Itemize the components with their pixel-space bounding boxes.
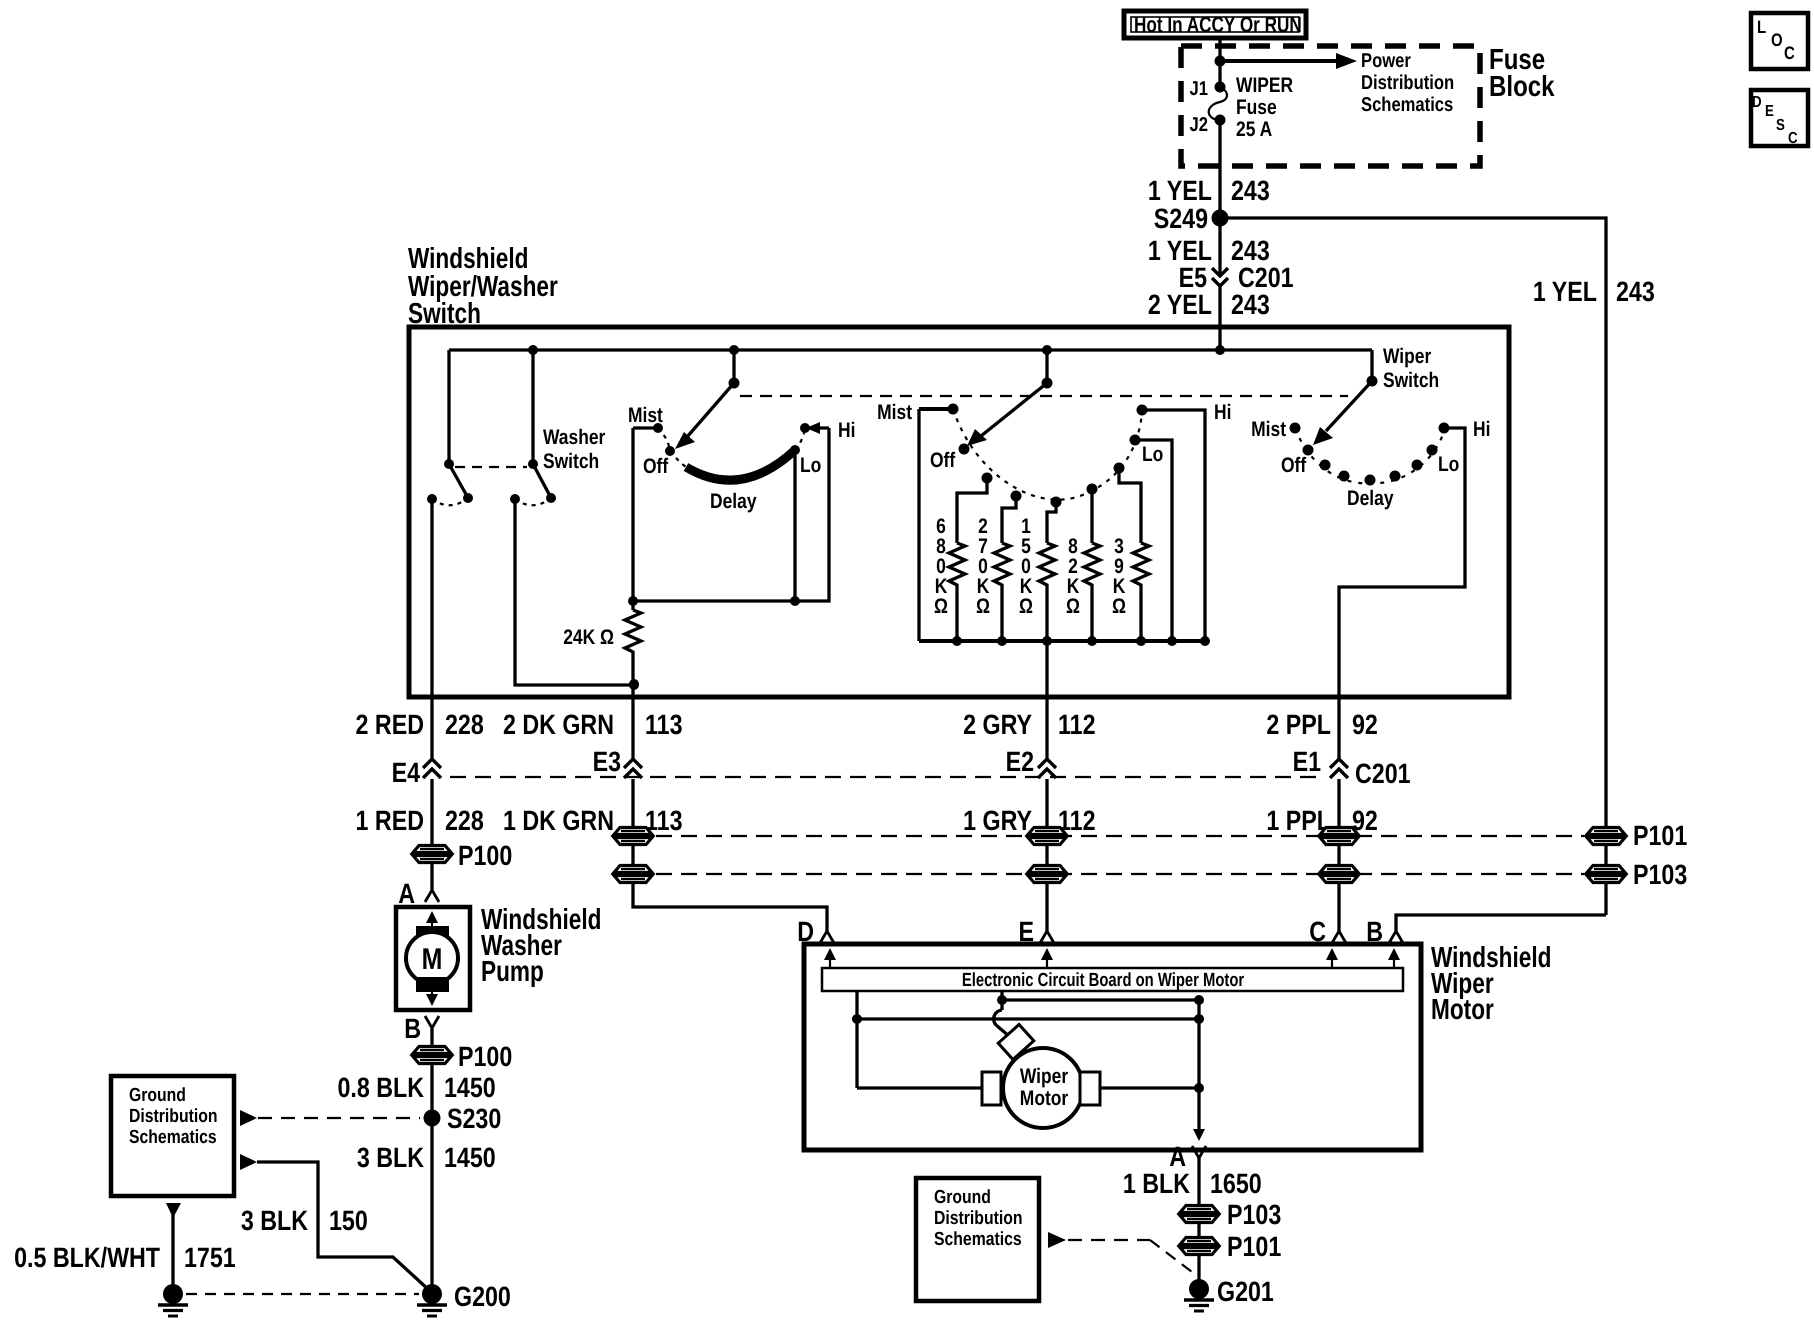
svg-text:E: E bbox=[1765, 103, 1774, 120]
svg-text:1 GRY: 1 GRY bbox=[963, 805, 1032, 836]
power source label: Hot In ACCY Or RUN bbox=[1124, 11, 1306, 38]
svg-text:1 YEL: 1 YEL bbox=[1533, 276, 1597, 307]
board arrow to terminal C bbox=[1326, 948, 1338, 968]
bank3 Off contact bbox=[1281, 445, 1314, 478]
electronic circuit board on wiper motor bbox=[822, 968, 1403, 991]
svg-text:1 BLK: 1 BLK bbox=[1123, 1168, 1190, 1199]
wire: internal ground leg with arrow to A bbox=[1193, 1000, 1205, 1141]
wire: internal supply bus bbox=[449, 345, 1372, 355]
wire: 2 DK GRN 113 to C201 pin E3 bbox=[503, 697, 683, 761]
connector P103 on motor ground wire bbox=[1180, 1199, 1281, 1230]
windshield washer pump motor M bbox=[396, 904, 601, 1010]
board arrow to terminal E bbox=[1041, 948, 1053, 968]
connector P103 on GRY wire bbox=[1028, 866, 1066, 883]
connector C201 pin E1 bbox=[1293, 746, 1411, 789]
svg-text:P103: P103 bbox=[1633, 859, 1687, 890]
connector C201 pin E3 bbox=[593, 746, 642, 778]
wire: 1 YEL 243 from S249 to connector C201 pin E5 bbox=[1148, 218, 1270, 276]
wire: right brush to ground leg bbox=[1100, 1083, 1204, 1093]
svg-text:Mist: Mist bbox=[1251, 418, 1286, 441]
svg-text:Washer: Washer bbox=[543, 426, 605, 449]
wire: 1 PPL 92 from E1 through P101/P103 to terminal C bbox=[1266, 779, 1377, 931]
svg-text:O: O bbox=[1771, 30, 1783, 50]
wire: 1 YEL 243 branch right from S249 to right column bbox=[1220, 218, 1655, 915]
wiper motor armature bbox=[982, 1024, 1100, 1128]
svg-text:Hi: Hi bbox=[1473, 418, 1490, 441]
connector P100 (washer pump side A) bbox=[413, 840, 512, 871]
wire: bank2 output to box exit (2 GRY) bbox=[1045, 641, 1048, 697]
svg-text:Ω: Ω bbox=[1019, 595, 1033, 618]
svg-text:Mist: Mist bbox=[877, 401, 912, 424]
wiper switch bank 2 arm bbox=[967, 350, 1053, 446]
wire: 2 PPL 92 to C201 pin E1 bbox=[1266, 697, 1377, 761]
svg-text:Ω: Ω bbox=[1066, 595, 1080, 618]
connector P101 on GRY wire bbox=[1028, 828, 1066, 845]
dashed reference from ground box to S230 bbox=[240, 1110, 420, 1126]
svg-text:Ground: Ground bbox=[934, 1187, 991, 1208]
connector C201 pin E2 bbox=[1006, 746, 1056, 778]
svg-text:1 DK GRN: 1 DK GRN bbox=[503, 805, 614, 836]
ground (left) bbox=[158, 1284, 188, 1316]
wire: 3 BLK 1450 from S230 to G200 bbox=[357, 1118, 496, 1285]
svg-text:Lo: Lo bbox=[1142, 443, 1163, 466]
svg-text:B: B bbox=[404, 1013, 421, 1044]
svg-text:2 PPL: 2 PPL bbox=[1266, 709, 1331, 740]
ground G201 bbox=[1184, 1276, 1274, 1311]
svg-text:Ω: Ω bbox=[934, 595, 948, 618]
bank2 bottom bus bbox=[919, 639, 1205, 643]
svg-text:Lo: Lo bbox=[800, 454, 821, 477]
wire: left brush to feed bbox=[857, 1086, 982, 1089]
connector C201 pin E4 bbox=[392, 757, 441, 788]
connector P101 on YEL wire with label bbox=[1587, 820, 1687, 851]
svg-text:M: M bbox=[422, 943, 443, 976]
wire: 1 DK GRN 113 from E3 to P101 connector bbox=[503, 779, 683, 836]
svg-text:P101: P101 bbox=[1633, 820, 1687, 851]
washer switch pole 1 bbox=[427, 350, 473, 505]
svg-text:C: C bbox=[1788, 130, 1798, 147]
svg-text:Hot In ACCY Or RUN: Hot In ACCY Or RUN bbox=[1134, 12, 1302, 37]
wire: 1 GRY 112 from E2 through P101/P103 to terminal E bbox=[963, 779, 1095, 931]
svg-text:P100: P100 bbox=[458, 840, 512, 871]
bank2 contact dots bbox=[982, 463, 1125, 508]
bank2 Off contact bbox=[930, 444, 970, 473]
resistor 680K ohm bbox=[934, 478, 987, 646]
wiper motor terminal A bbox=[1169, 1141, 1206, 1172]
svg-text:C201: C201 bbox=[1355, 758, 1411, 789]
svg-text:1650: 1650 bbox=[1210, 1168, 1262, 1199]
svg-text:A: A bbox=[398, 878, 415, 909]
resistor 150K ohm bbox=[1019, 502, 1056, 646]
svg-text:Motor: Motor bbox=[1020, 1087, 1068, 1110]
splice S249 bbox=[1154, 203, 1229, 234]
fuse WIPER 25 A with terminals J1 J2 bbox=[1190, 74, 1294, 141]
svg-text:0.5 BLK/WHT: 0.5 BLK/WHT bbox=[14, 1242, 160, 1273]
ground distribution schematics box (lower) bbox=[916, 1178, 1039, 1301]
bank1 travel arc dashed bbox=[658, 428, 805, 467]
bank3 Mist contact bbox=[1251, 418, 1300, 441]
connector P100 (harness side B) bbox=[413, 1041, 512, 1072]
wiper motor terminal C bbox=[1309, 916, 1346, 947]
wire: board to brush feed (left internal) bbox=[852, 991, 862, 1088]
svg-text:2 DK GRN: 2 DK GRN bbox=[503, 709, 614, 740]
svg-text:E3: E3 bbox=[593, 746, 621, 777]
bank1 Off contact bbox=[643, 446, 675, 478]
wiper switch bank 1 arm bbox=[675, 350, 740, 449]
svg-text:Electronic Circuit Board on Wi: Electronic Circuit Board on Wiper Motor bbox=[962, 970, 1245, 991]
connector P101 row dashed line bbox=[656, 835, 1584, 837]
wire between P103 and P101 bbox=[1197, 1224, 1200, 1236]
connector P103 on PPL wire bbox=[1320, 866, 1358, 883]
svg-text:243: 243 bbox=[1616, 276, 1655, 307]
svg-text:Motor: Motor bbox=[1431, 994, 1494, 1026]
svg-text:WIPER: WIPER bbox=[1236, 74, 1293, 97]
bank3 travel arc dashed with delay positions bbox=[1295, 428, 1444, 510]
svg-text:G200: G200 bbox=[454, 1281, 511, 1312]
wire: feed from Hot box into fuse block bbox=[1218, 38, 1221, 86]
svg-text:P103: P103 bbox=[1227, 1199, 1281, 1230]
svg-text:Switch: Switch bbox=[408, 298, 481, 330]
svg-text:E2: E2 bbox=[1006, 746, 1034, 777]
svg-text:P101: P101 bbox=[1227, 1231, 1281, 1262]
windshield wiper/washer switch assembly box bbox=[408, 243, 1509, 697]
svg-text:Switch: Switch bbox=[543, 450, 599, 473]
svg-text:Wiper: Wiper bbox=[1383, 345, 1431, 368]
svg-text:243: 243 bbox=[1231, 289, 1270, 320]
LOC tab bbox=[1751, 13, 1808, 69]
svg-text:Off: Off bbox=[1281, 454, 1307, 477]
svg-text:Off: Off bbox=[930, 449, 956, 472]
mechanical link washer poles (dashed) bbox=[455, 466, 527, 468]
bank2 Mist contact and leg bbox=[877, 401, 958, 641]
wire: 0.5 BLK/WHT 1751 from ground box down bbox=[14, 1203, 236, 1285]
svg-text:Power: Power bbox=[1361, 50, 1411, 72]
svg-text:92: 92 bbox=[1352, 709, 1378, 740]
connector C201 dashed line bbox=[450, 776, 1318, 778]
bank2 travel arc dashed bbox=[953, 409, 1142, 500]
svg-text:2 YEL: 2 YEL bbox=[1148, 289, 1212, 320]
svg-text:2 RED: 2 RED bbox=[356, 709, 424, 740]
svg-text:Hi: Hi bbox=[1214, 401, 1231, 424]
ground distribution schematics box (left) bbox=[111, 1076, 234, 1196]
svg-text:E1: E1 bbox=[1293, 746, 1321, 777]
svg-text:S230: S230 bbox=[447, 1103, 501, 1134]
svg-text:Switch: Switch bbox=[1383, 369, 1439, 392]
svg-text:Distribution: Distribution bbox=[129, 1106, 217, 1127]
bank2 Hi contact and wire bbox=[1137, 401, 1232, 641]
svg-text:L: L bbox=[1757, 17, 1766, 37]
svg-text:Lo: Lo bbox=[1438, 453, 1459, 476]
svg-text:Fuse: Fuse bbox=[1236, 96, 1277, 119]
resistor 82K ohm bbox=[1066, 489, 1100, 646]
windshield wiper motor box bbox=[804, 942, 1551, 1150]
svg-text:S: S bbox=[1776, 117, 1785, 134]
svg-text:J2: J2 bbox=[1190, 114, 1208, 136]
svg-text:1 YEL: 1 YEL bbox=[1148, 175, 1212, 206]
svg-text:Mist: Mist bbox=[628, 404, 663, 427]
dashed link between grounds bbox=[186, 1293, 419, 1295]
svg-text:E4: E4 bbox=[392, 757, 421, 788]
svg-text:C: C bbox=[1784, 43, 1795, 63]
resistor 24K ohm bbox=[563, 601, 641, 657]
wire: P101 to G201 bbox=[1197, 1256, 1200, 1284]
wire: 2 RED 228 from washer switch to C201 pin E4 bbox=[356, 499, 484, 761]
connector C201 pin E5 bbox=[1179, 262, 1294, 293]
svg-text:Pump: Pump bbox=[481, 956, 544, 988]
wiper motor terminal E bbox=[1018, 916, 1054, 947]
wire: 2 YEL 243 from C201 to switch assembly bbox=[1148, 286, 1270, 350]
svg-text:1450: 1450 bbox=[444, 1072, 496, 1103]
wire: DK GRN to wiper motor terminal D bbox=[633, 846, 834, 947]
board arrow to terminal B bbox=[1388, 948, 1400, 968]
svg-text:Delay: Delay bbox=[1347, 487, 1394, 510]
wire: P100 to washer pump terminal A bbox=[398, 864, 439, 909]
svg-text:243: 243 bbox=[1231, 175, 1270, 206]
svg-text:Ground: Ground bbox=[129, 1085, 186, 1106]
svg-text:1 RED: 1 RED bbox=[356, 805, 424, 836]
bank3 Lo contact bbox=[1427, 445, 1460, 477]
svg-text:0.8 BLK: 0.8 BLK bbox=[337, 1072, 424, 1103]
svg-text:S249: S249 bbox=[1154, 203, 1208, 234]
bank1 Lo contact and wire bbox=[790, 445, 821, 606]
svg-text:Schematics: Schematics bbox=[934, 1229, 1022, 1250]
connector P103 row dashed line bbox=[656, 873, 1584, 875]
dashed reference from lower ground box to motor ground wire bbox=[1048, 1232, 1192, 1272]
svg-text:Ω: Ω bbox=[976, 595, 990, 618]
svg-text:150: 150 bbox=[329, 1205, 368, 1236]
svg-text:228: 228 bbox=[445, 805, 484, 836]
svg-text:Delay: Delay bbox=[710, 490, 757, 513]
svg-text:J1: J1 bbox=[1190, 78, 1208, 100]
svg-text:3 BLK: 3 BLK bbox=[241, 1205, 308, 1236]
svg-text:G201: G201 bbox=[1217, 1276, 1274, 1307]
svg-text:Wiper: Wiper bbox=[1020, 1065, 1068, 1088]
bank2 Lo contact and wire bbox=[1130, 435, 1178, 647]
wire: internal bus y1019 bbox=[857, 1014, 1204, 1024]
mechanical link dashed line across banks bbox=[740, 395, 1348, 397]
svg-text:Schematics: Schematics bbox=[129, 1127, 217, 1148]
DESC tab bbox=[1751, 90, 1808, 147]
svg-text:25 A: 25 A bbox=[1236, 118, 1272, 141]
svg-text:Block: Block bbox=[1489, 71, 1555, 103]
svg-text:1450: 1450 bbox=[444, 1142, 496, 1173]
wire: 24K to box exit (2 DK GRN) bbox=[629, 657, 639, 697]
svg-text:D: D bbox=[1752, 94, 1762, 111]
wire: arrow to Power Distribution Schematics bbox=[1215, 50, 1455, 116]
svg-text:Hi: Hi bbox=[838, 419, 855, 442]
svg-text:Distribution: Distribution bbox=[934, 1208, 1022, 1229]
svg-text:Off: Off bbox=[643, 455, 669, 478]
svg-text:Distribution: Distribution bbox=[1361, 72, 1454, 94]
connector P101 on DK GRN wire bbox=[614, 828, 652, 845]
connector P101 on PPL wire bbox=[1320, 828, 1358, 845]
wire: 3 BLK 150 from ground box to G200 bbox=[240, 1154, 430, 1291]
wire: washer pole 2 to DK GRN node bbox=[515, 499, 639, 690]
washer switch pole 2 bbox=[510, 350, 605, 505]
connector P103 on YEL wire with label bbox=[1587, 859, 1687, 890]
washer pump terminal B bbox=[404, 1013, 439, 1045]
svg-text:112: 112 bbox=[1058, 709, 1095, 740]
wire jump and feed to armature brush bbox=[994, 1000, 1010, 1037]
ground G200 bbox=[417, 1281, 511, 1316]
bank1 Mist contact bbox=[628, 404, 663, 433]
svg-text:113: 113 bbox=[645, 709, 682, 740]
wiper switch bank 3 arm bbox=[1313, 345, 1439, 445]
svg-text:2 GRY: 2 GRY bbox=[963, 709, 1032, 740]
wire: 1 RED 228 from E4 to P100 bbox=[356, 779, 484, 845]
bank1 Delay resistive band (thick arc) bbox=[686, 450, 795, 513]
wire: 1 BLK 1650 from A to P103 bbox=[1123, 1158, 1262, 1204]
wire: 0.8 BLK 1450 from P100 to S230 bbox=[337, 1065, 495, 1118]
fuse block (dashed box) bbox=[1181, 44, 1555, 166]
wire: 2 GRY 112 to C201 pin E2 bbox=[963, 697, 1095, 761]
resistor 270K ohm bbox=[976, 496, 1016, 646]
wire: YEL down to wiper motor terminal B bbox=[1366, 915, 1606, 947]
svg-text:228: 228 bbox=[445, 709, 484, 740]
svg-text:24K Ω: 24K Ω bbox=[563, 626, 614, 649]
svg-text:1751: 1751 bbox=[184, 1242, 236, 1273]
svg-text:Ω: Ω bbox=[1112, 595, 1126, 618]
svg-text:3 BLK: 3 BLK bbox=[357, 1142, 424, 1173]
resistor 39K ohm bbox=[1112, 468, 1149, 646]
svg-text:P100: P100 bbox=[458, 1041, 512, 1072]
svg-text:Schematics: Schematics bbox=[1361, 94, 1453, 116]
connector P101 on motor ground wire bbox=[1180, 1231, 1281, 1262]
splice S230 bbox=[424, 1103, 502, 1134]
bank1 Hi contact and wire bbox=[795, 419, 855, 601]
wire: board drop right internal bbox=[997, 991, 1204, 1005]
board arrow to terminal D bbox=[824, 948, 836, 968]
connector P103 on DK GRN wire bbox=[614, 866, 652, 883]
wire: bank1 Mist leg down to 24K node bbox=[628, 428, 795, 606]
bank3 Hi contact and wire to box exit (2 PPL) bbox=[1339, 418, 1490, 697]
wire: 1 YEL 243 from fuse to S249 bbox=[1148, 120, 1270, 218]
